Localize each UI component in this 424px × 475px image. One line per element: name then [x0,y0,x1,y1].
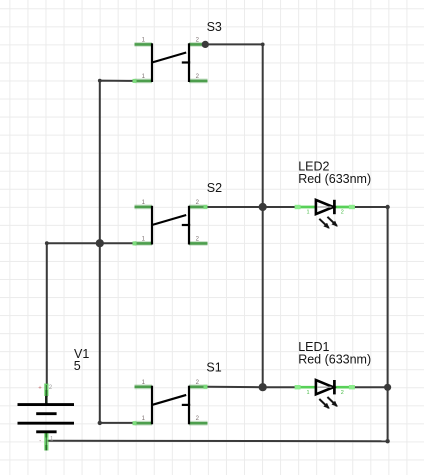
svg-text:-: - [39,439,41,445]
junction dot at S3 pin2 [202,41,209,48]
V1 polarity and pin labels [38,385,54,445]
V1 plate long bottom [18,422,75,425]
svg-text:1: 1 [307,390,310,396]
battery V1 [18,347,90,451]
S3 label [207,20,222,34]
svg-text:1: 1 [307,210,310,216]
LED2 emission arrow 2 [327,217,337,226]
LED2 terminal line [295,205,355,209]
svg-text:S2: S2 [207,181,222,195]
S2 contact tick [182,224,190,226]
V1 plus pin stub [45,384,47,405]
S2 label [207,181,222,195]
wire LED1 cathode to right rail [353,386,388,388]
LED1 [295,340,372,408]
wire from S2 pin1 to middle junction [100,242,135,244]
wire middle junction down then right to S1 pin1 [100,243,135,423]
S1 pin 1 bottom stub [133,421,153,425]
S3 pin 1 bottom stub [133,79,153,83]
S3 actuator lever [152,53,186,63]
LED1 value label [298,352,371,366]
junction node at LED1 left [259,383,267,391]
switch S2 [133,181,223,246]
S1 pin number labels [142,380,200,422]
bendpoint left of middle junction [45,241,49,245]
LED1 label [298,340,329,354]
svg-text:2: 2 [341,390,344,396]
LED1 emission arrow 2 [327,397,337,406]
junction node middle left [96,239,104,247]
wire node to LED1 anode [263,386,299,388]
S3 pin 1 top stub [135,42,153,47]
LED2 cathode bar [333,200,336,214]
svg-text:5: 5 [74,359,81,373]
wire from S3 pin1 left then down to middle junction [100,81,135,244]
S2 actuator lever [152,215,186,225]
wire node to LED2 anode [263,206,299,208]
S1 actuator lever [152,395,186,405]
LED2 emission arrow 1 [319,219,329,228]
S1 right pole line [188,386,190,425]
V1 plate short lower [36,430,56,433]
svg-text:Red (633nm): Red (633nm) [298,352,371,366]
S1 pin 2 bottom stub [189,421,208,426]
junction node at LED1 right [384,384,391,391]
V1 value label [74,359,81,373]
LED1 emission arrow 1 [319,399,329,408]
bendpoint at top right corner [261,43,265,47]
V1 plate long top [18,403,75,406]
LED2 internal wire hint [318,206,332,208]
bendpoint at S1 pin1 corner [98,421,102,425]
S2 pin 1 top stub [135,204,153,209]
S2 right pole line [188,206,190,245]
wire from S3 pin2 right then down to LED1 left node [208,44,263,387]
S3 left pole line [151,43,153,82]
V1 plate short upper [36,412,56,415]
S2 pin 2 bottom stub [189,241,208,246]
svg-text:+: + [38,385,42,391]
S3 pin 2 top stub [189,42,208,46]
wire middle junction left then down to battery plus [47,243,100,396]
svg-text:Red (633nm): Red (633nm) [298,172,371,186]
S1 left pole line [151,386,153,425]
LED2 [295,160,372,228]
S3 contact tick [182,61,190,63]
wire from S2 pin2 to node at LED2 left [208,206,263,208]
bendpoint at S3 pin1 corner [98,79,102,83]
LED1 internal wire hint [318,386,332,388]
LED1 terminal line [295,385,355,389]
bendpoint bottom right corner [385,439,389,443]
wire LED2 cathode right then down right rail [353,207,388,441]
svg-text:2: 2 [341,210,344,216]
S3 pin number labels [142,37,200,80]
LED2 value label [298,172,371,186]
S1 label [206,361,221,375]
S2 left pole line [151,206,153,245]
LED2 label [298,160,329,174]
junction node at LED2 left [259,203,267,211]
S2 pin 2 top stub [189,205,208,209]
S2 pin 1 bottom stub [133,241,153,245]
switch S3 [133,20,222,83]
wire battery minus along bottom to right rail [46,440,387,442]
S1 pin 2 top stub [189,385,208,389]
S3 pin 2 bottom stub [189,79,208,84]
LED1 triangle anode [316,380,333,394]
S1 contact tick [182,404,190,406]
wire from S1 pin2 to node at LED1 left [208,386,263,388]
svg-text:2: 2 [49,385,53,391]
S3 right pole line [188,43,190,82]
S2 pin number labels [142,200,200,243]
switch S1 [133,361,222,426]
svg-text:S1: S1 [206,361,221,375]
V1 minus pin stub [45,432,47,451]
V1 label [74,347,89,361]
svg-text:S3: S3 [207,20,222,34]
LED2 pin labels [307,210,344,216]
LED1 cathode bar [333,380,336,394]
S1 pin 1 top stub [135,384,153,389]
LED2 triangle anode [316,200,333,214]
bendpoint at LED2 right corner [385,205,389,209]
LED1 pin labels [307,390,344,396]
